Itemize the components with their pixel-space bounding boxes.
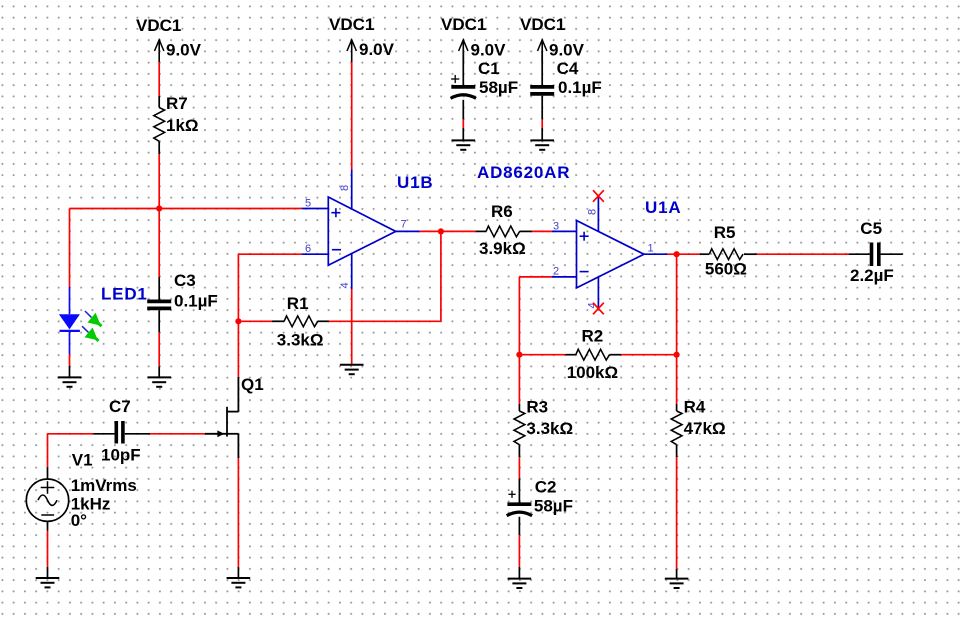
resistor R4 47k <box>671 355 725 458</box>
svg-text:LED1: LED1 <box>101 285 148 304</box>
U1B pin 5 stub <box>302 208 329 210</box>
ground below C2 <box>508 579 532 588</box>
svg-text:C3: C3 <box>174 271 196 290</box>
wire R1 right lead to feedback <box>329 320 441 322</box>
svg-text:3.9kΩ: 3.9kΩ <box>479 239 526 258</box>
wire VDC1 to U1B pin8 <box>351 62 353 170</box>
svg-text:3: 3 <box>553 220 559 232</box>
svg-text:7: 7 <box>401 218 407 230</box>
svg-text:1mVrms: 1mVrms <box>71 476 137 495</box>
U1B pin 8 stub <box>351 170 353 210</box>
svg-text:9.0V: 9.0V <box>166 41 202 60</box>
svg-text:100kΩ: 100kΩ <box>567 363 618 382</box>
U1B pin 6 stub <box>302 253 329 255</box>
wire C7 to Q1 gate <box>150 433 205 435</box>
wire R3 to C2 <box>518 457 520 478</box>
power VDC1 (supply at C4) <box>520 15 585 62</box>
svg-text:1kΩ: 1kΩ <box>166 116 199 135</box>
wire V1 to C7 <box>48 433 94 435</box>
svg-text:10pF: 10pF <box>101 446 141 465</box>
resistor R3 3.3k <box>514 355 573 458</box>
wire V1 to ground <box>47 531 49 567</box>
wire R7 to node A rail and C3 <box>158 154 160 277</box>
wire R2 right to node D <box>621 354 676 356</box>
node U1B output junction <box>438 228 444 234</box>
wire U1A pin2 feedback <box>519 276 551 278</box>
svg-text:8: 8 <box>339 185 351 191</box>
svg-text:R1: R1 <box>287 294 309 313</box>
svg-text:0.1µF: 0.1µF <box>174 292 218 311</box>
svg-text:58µF: 58µF <box>534 497 573 516</box>
svg-text:R5: R5 <box>714 223 736 242</box>
resistor R2 100k <box>565 327 621 382</box>
ground below Q1 <box>227 578 251 587</box>
svg-text:R4: R4 <box>684 398 706 417</box>
wire R6 to U1A pin3 <box>532 230 552 232</box>
node A junction <box>156 205 162 211</box>
LED1 emission arrow 1 <box>85 311 92 317</box>
source V1 1mVrms <box>26 450 137 530</box>
node D junction R2/R4/output <box>674 352 680 358</box>
svg-text:0.1µF: 0.1µF <box>558 78 602 97</box>
U1B pin 7 output stub <box>396 230 420 232</box>
op-amp U1B <box>302 170 434 290</box>
svg-text:2.2µF: 2.2µF <box>850 266 894 285</box>
power VDC1 (supply at C1) <box>441 15 506 62</box>
capacitor C3 0.1uF <box>147 271 218 332</box>
power VDC1 (supply for R7 branch) <box>136 16 202 62</box>
ground below LED1 <box>58 377 82 386</box>
svg-text:V1: V1 <box>72 450 93 469</box>
svg-text:0°: 0° <box>71 511 87 530</box>
ground below R4 <box>665 579 689 588</box>
node U1A output junction <box>674 251 680 257</box>
U1A pin 2 stub <box>552 276 577 278</box>
svg-text:Q1: Q1 <box>241 375 264 394</box>
svg-text:VDC1: VDC1 <box>329 15 374 34</box>
capacitor C5 2.2uF <box>849 219 903 285</box>
svg-text:2: 2 <box>553 265 559 277</box>
wire R1 left to node B <box>238 320 272 322</box>
wire node B down to Q1 drain <box>237 321 239 377</box>
node C junction R2/R3/pin2 <box>516 352 522 358</box>
ground below C1 <box>452 140 476 149</box>
ground below U1B <box>340 365 364 374</box>
resistor R1 3.3k <box>272 294 329 350</box>
wire Q1 source to ground <box>237 458 239 567</box>
wire U1B output to R6 with junction <box>420 230 476 232</box>
wire U1A output down to R2 node <box>676 254 678 355</box>
wire node A down to LED1 <box>69 209 71 288</box>
LED1 <box>59 285 148 355</box>
wire R2 left to node C <box>519 354 565 356</box>
ground below C3 <box>147 377 171 386</box>
ground below C4 <box>530 140 554 149</box>
svg-text:9.0V: 9.0V <box>471 41 507 60</box>
svg-text:9.0V: 9.0V <box>359 40 395 59</box>
capacitor C7 10pF <box>94 397 151 465</box>
wire C2 to ground <box>518 535 520 567</box>
svg-text:U1B: U1B <box>397 173 433 192</box>
wire LED1 to ground <box>69 354 71 366</box>
svg-text:AD8620AR: AD8620AR <box>477 163 570 182</box>
wire R5 to C5 <box>757 253 849 255</box>
wire C1 to ground <box>462 119 464 128</box>
wire top rail node A to U1B pin5 <box>70 208 302 210</box>
svg-text:6: 6 <box>305 243 311 255</box>
svg-text:3.3kΩ: 3.3kΩ <box>526 419 573 438</box>
svg-text:1: 1 <box>648 242 654 254</box>
svg-text:9.0V: 9.0V <box>549 41 585 60</box>
op-amp U1A <box>552 190 682 314</box>
transistor Q1 JFET <box>205 375 264 458</box>
wire U1A output to R5 <box>667 253 700 255</box>
U1A pin 4 stub with no-connect X <box>597 277 599 309</box>
svg-text:VDC1: VDC1 <box>520 15 565 34</box>
LED1 emission arrow 2 <box>82 326 89 332</box>
svg-text:R7: R7 <box>166 94 188 113</box>
power VDC1 (supply for U1B pin 8) <box>329 15 395 62</box>
wire VDC1 to R7 <box>158 62 160 96</box>
wire C4 to ground <box>541 119 543 128</box>
wire C3 to ground <box>158 332 160 366</box>
svg-text:R3: R3 <box>526 398 548 417</box>
resistor R5 560 <box>700 223 757 278</box>
svg-text:C2: C2 <box>535 478 557 497</box>
U1B pin 4 stub <box>351 253 353 289</box>
svg-text:U1A: U1A <box>645 198 681 217</box>
svg-text:C5: C5 <box>860 219 882 238</box>
node B junction at R1/Q1 <box>235 318 241 324</box>
svg-text:VDC1: VDC1 <box>441 15 486 34</box>
wire R4 to ground <box>676 457 678 569</box>
wire U1B output down to R1 <box>440 231 442 321</box>
svg-text:R6: R6 <box>491 202 513 221</box>
svg-text:C7: C7 <box>109 397 131 416</box>
resistor R7 1k <box>154 94 199 154</box>
U1A pin 1 output stub <box>644 253 668 255</box>
svg-text:47kΩ: 47kΩ <box>684 419 726 438</box>
svg-text:C1: C1 <box>478 59 500 78</box>
U1A pin 3 stub <box>552 230 577 232</box>
resistor R6 3.9k <box>476 202 532 258</box>
wire U1B pin4 to ground <box>351 289 353 364</box>
svg-text:560Ω: 560Ω <box>705 259 747 278</box>
capacitor C4 0.1uF <box>530 51 602 119</box>
svg-text:VDC1: VDC1 <box>136 16 181 35</box>
svg-text:8: 8 <box>587 209 599 215</box>
svg-text:3.3kΩ: 3.3kΩ <box>277 331 324 350</box>
capacitor C2 58uF polarized <box>507 478 573 536</box>
U1A pin 8 stub with no-connect X <box>597 196 599 232</box>
capacitor C1 58uF polarized <box>451 51 518 119</box>
svg-text:5: 5 <box>305 197 311 209</box>
wire node B up and to U1B pin 6 <box>237 254 239 321</box>
svg-text:C4: C4 <box>557 59 579 78</box>
svg-text:R2: R2 <box>582 327 604 346</box>
svg-text:4: 4 <box>339 282 351 288</box>
ground below V1 <box>36 578 60 587</box>
svg-text:58µF: 58µF <box>479 78 518 97</box>
